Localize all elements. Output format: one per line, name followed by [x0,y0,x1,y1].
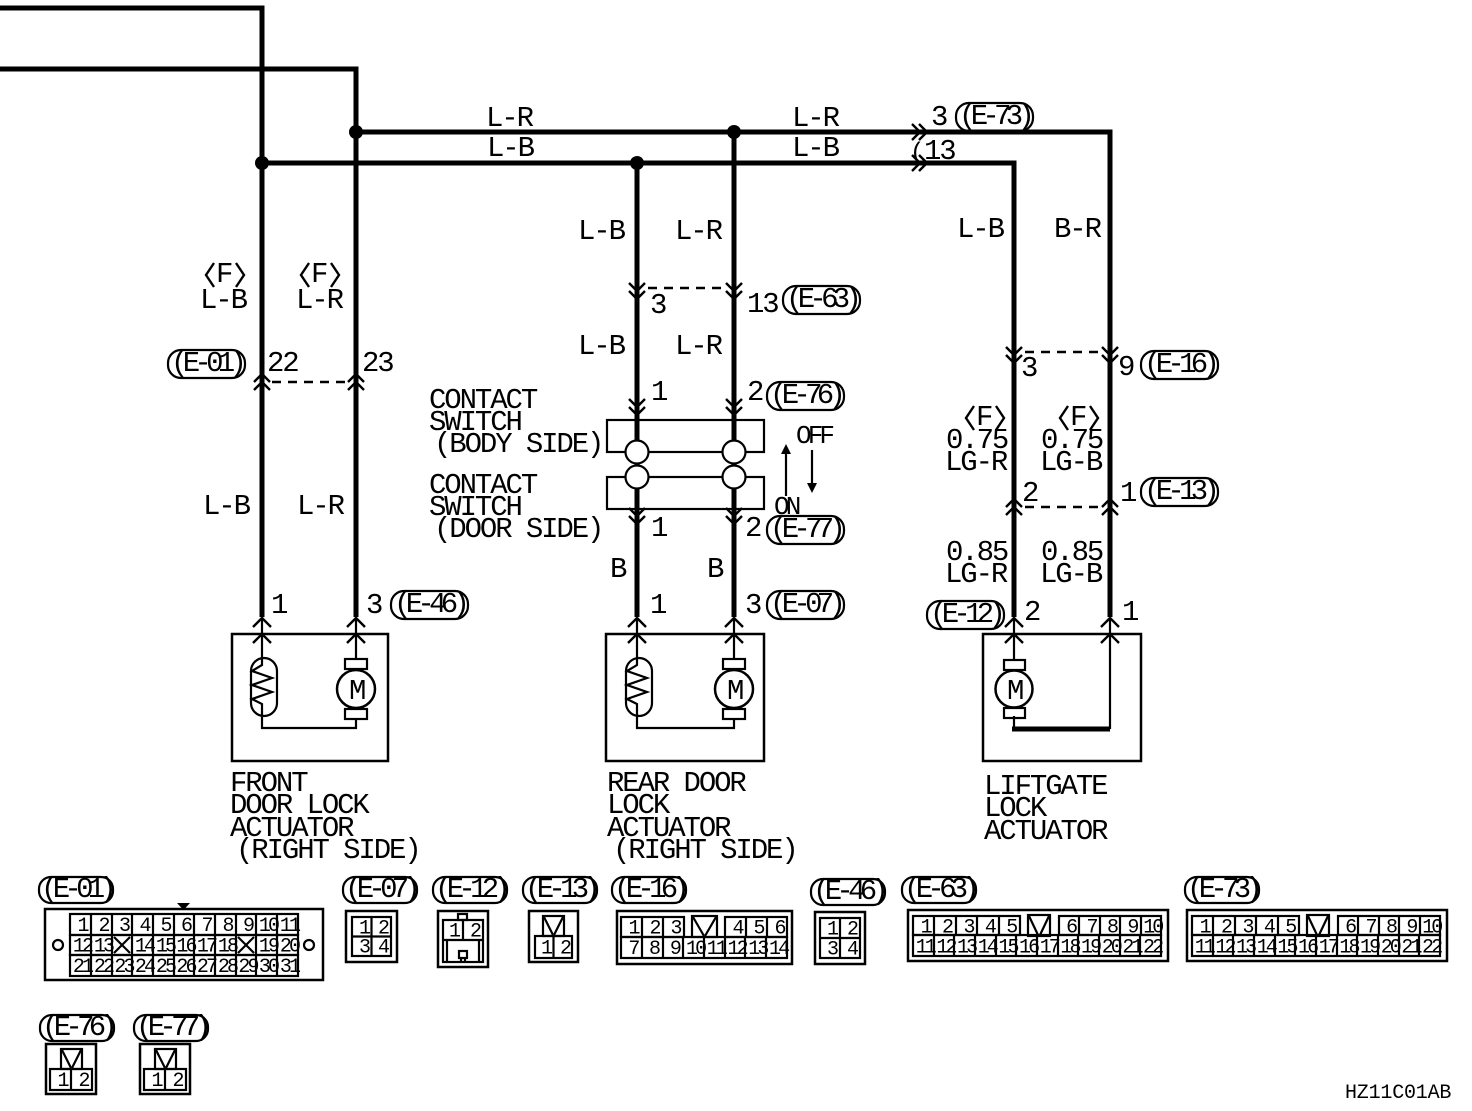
svg-text:L-R: L-R [675,330,723,363]
chevron E-16 left (down) [1006,347,1022,355]
motor M1 front actuator [337,659,375,719]
chevron E-01 pin 23 (up) [348,374,364,382]
svg-text:14: 14 [769,938,789,961]
svg-text:17: 17 [1040,937,1060,960]
chevron L-R bus to E-73 [912,124,920,140]
contact switch pole (door side, right) [723,466,746,489]
svg-text:2: 2 [747,376,763,409]
svg-text:13: 13 [957,937,977,960]
svg-text:L-R: L-R [296,284,344,317]
wire L-R bus (to liftgate B-R drop at x=1110) [356,132,1110,617]
svg-text:L-B: L-B [957,213,1005,246]
box-entry arrow liftgate pin 1 [1101,634,1119,643]
svg-text:(DOOR SIDE): (DOOR SIDE) [434,513,602,546]
svg-text:2: 2 [1022,477,1038,510]
connector oval E-73 (inline) [956,103,1033,131]
label FRONT DOOR LOCK ACTUATOR (RIGHT SIDE) [230,767,420,867]
connector E-13 crossing dashed line [1025,506,1100,508]
svg-text:14: 14 [978,937,998,960]
connector oval E-76 (inline) [767,382,844,410]
svg-text:L-B: L-B [203,490,251,523]
box-entry arrow rear pin 1 [628,634,646,643]
contact switch door-side rectangle [607,477,764,509]
svg-text:17: 17 [1319,937,1339,960]
wire liftgate motor to bottom [1013,716,1015,729]
terminal chevron liftgate pin 2 [1005,618,1023,627]
terminal chevron rear pin 3 [725,618,743,627]
svg-text:29: 29 [238,956,258,979]
chevron E-16 right (down) [1102,347,1118,355]
chevron E-77 left (down) [629,508,645,516]
svg-text:1: 1 [1120,477,1136,510]
svg-text:(E-16): (E-16) [614,873,686,906]
svg-text:26: 26 [176,956,196,979]
svg-text:(E-01): (E-01) [171,347,243,380]
junction node L-B/front [255,156,269,170]
svg-text:21: 21 [1401,937,1422,960]
svg-text:22: 22 [94,956,114,979]
svg-text:(E-73): (E-73) [1187,873,1259,906]
svg-text:L-B: L-B [200,284,248,317]
svg-text:(E-12): (E-12) [930,598,1002,631]
wire feed L-R (second line, turns down at x=356 to front door pin 3) [0,69,356,617]
label CONTACT SWITCH (DOOR SIDE) [429,469,602,546]
svg-text:M: M [727,675,743,708]
svg-text:3: 3 [1021,352,1037,385]
motor M2 rear actuator [715,659,753,719]
connector oval E-07 (inline) [767,591,844,619]
svg-text:(BODY SIDE): (BODY SIDE) [434,428,602,461]
chevron E-76 right (down) [726,399,742,407]
svg-text:(E-73): (E-73) [959,100,1031,133]
svg-text:1: 1 [651,512,667,545]
chevron E-13 left (up) [1006,499,1022,507]
svg-text:B: B [707,553,724,586]
connector oval E-16 (inline) [1141,351,1218,379]
wire into liftgate motor [1013,619,1015,661]
contact switch pole (body side, right) [723,441,746,464]
svg-text:22: 22 [1143,937,1163,960]
terminal chevron front pin 1 [253,618,271,627]
wire into rear solenoid [636,619,638,660]
connector oval E-12 (inline) [927,601,1004,629]
svg-text:18: 18 [1060,937,1080,960]
svg-text:L-R: L-R [486,102,534,135]
connector oval E-13 (inline) [1141,478,1218,506]
connector oval E-46 (inline) [391,591,468,619]
connector E-12 pinout [433,873,507,967]
contact switch body-side rectangle [607,420,764,452]
label REAR DOOR LOCK ACTUATOR (RIGHT SIDE) [607,767,797,867]
chevron E-01 pin 22 (up) [254,374,270,382]
svg-text:OFF: OFF [796,421,833,451]
svg-text:22: 22 [267,347,298,380]
svg-text:27: 27 [197,956,217,979]
svg-text:21: 21 [73,956,94,979]
svg-text:(E-01): (E-01) [41,873,113,906]
svg-text:(E-76): (E-76) [42,1011,114,1044]
svg-text:LG-B: LG-B [1040,558,1103,591]
svg-text:1: 1 [651,376,667,409]
svg-text:(E-13): (E-13) [525,873,597,906]
svg-text:30: 30 [259,956,279,979]
solenoid rear actuator [626,658,652,716]
svg-text:(E-07): (E-07) [770,588,842,621]
wire into rear motor [733,619,735,660]
svg-text:LG-R: LG-R [945,446,1008,479]
svg-text:ON: ON [774,492,800,522]
wire rear solenoid to motor (bottom) [637,714,734,728]
svg-text:16: 16 [1298,937,1318,960]
svg-text:20: 20 [1102,937,1122,960]
OFF arrow (down) [807,450,817,493]
svg-text:(E-46): (E-46) [813,875,885,908]
label (F) on liftgate right wire [1060,401,1098,434]
svg-text:2: 2 [1024,596,1040,629]
wire front solenoid to motor (bottom) [262,714,356,728]
svg-text:22: 22 [1422,937,1442,960]
wire liftgate right inside box [1109,619,1111,729]
svg-text:(E-46): (E-46) [394,588,466,621]
chevron E-63 right (down) [726,283,742,291]
svg-text:L-B: L-B [487,132,535,165]
svg-text:12: 12 [1215,937,1235,960]
svg-text:(E-07): (E-07) [345,873,417,906]
svg-text:21: 21 [1122,937,1143,960]
svg-text:9: 9 [1118,351,1134,384]
svg-text:L-B: L-B [578,330,626,363]
terminal chevron rear pin 1 [628,618,646,627]
svg-text:(: ( [910,140,924,167]
svg-text:1: 1 [271,589,287,622]
wire L-B bus (to liftgate L-B drop at x=1014) [262,163,1014,617]
box-entry arrow rear pin 3 [725,634,743,643]
svg-text:13: 13 [924,135,955,168]
svg-text:11: 11 [1195,937,1216,960]
svg-text:(E-12): (E-12) [435,873,507,906]
svg-text:12: 12 [727,938,747,961]
connector E-01 pinout [39,873,323,980]
chevron E-76 left (down) [629,399,645,407]
svg-text:(E-77): (E-77) [136,1011,208,1044]
svg-text:19: 19 [1360,937,1380,960]
svg-text:L-B: L-B [792,132,840,165]
chevron E-13 right (up) [1102,499,1118,507]
svg-text:LG-R: LG-R [945,558,1008,591]
svg-text:ACTUATOR: ACTUATOR [984,815,1108,848]
svg-text:HZ11C01AB: HZ11C01AB [1345,1082,1451,1105]
svg-text:11: 11 [916,937,937,960]
chevron E-63 left (down) [629,283,645,291]
connector E-73 pinout [1185,873,1447,961]
svg-text:3: 3 [366,589,382,622]
svg-text:3: 3 [745,589,761,622]
svg-text:31: 31 [280,956,301,979]
motor M3 liftgate actuator [996,660,1033,718]
wire liftgate bottom (thick) [1012,727,1110,732]
connector E-76 pinout [40,1011,114,1094]
connector oval E-63 (inline) [783,286,860,314]
svg-text:19: 19 [1081,937,1101,960]
box-entry arrow liftgate pin 2 [1005,634,1023,643]
connector E-01 crossing dashed line [272,381,348,383]
connector oval E-01 [168,350,245,378]
svg-text:3: 3 [931,101,947,134]
chevron L-B bus to E-73 pin 13 [912,155,920,171]
svg-text:(E-16): (E-16) [1144,348,1216,381]
label LIFTGATE LOCK ACTUATOR [984,770,1108,848]
wire feed L-B (top line, turns down at x=262 to front door pin 1) [0,8,262,617]
svg-text:B: B [610,553,627,586]
svg-text:13: 13 [748,938,768,961]
junction node L-R/front [349,125,363,139]
wire rear door L-B drop [635,163,640,617]
svg-text:LG-B: LG-B [1040,446,1103,479]
liftgate lock actuator box [983,634,1141,761]
svg-text:(E-63): (E-63) [786,283,858,316]
svg-text:13: 13 [747,288,778,321]
junction node L-B/rear [630,156,644,170]
label (F) on front L-B wire [206,258,244,291]
svg-text:23: 23 [362,347,393,380]
svg-text:2: 2 [745,512,761,545]
svg-text:(E-76): (E-76) [770,379,842,412]
svg-text:(RIGHT SIDE): (RIGHT SIDE) [613,834,797,867]
svg-text:(E-63): (E-63) [904,873,976,906]
ON arrow (up) [781,444,791,496]
svg-text:L-R: L-R [297,490,345,523]
svg-text:(RIGHT SIDE): (RIGHT SIDE) [236,834,420,867]
connector E-16 pinout [612,873,792,964]
svg-text:M: M [349,675,365,708]
svg-text:(E-13): (E-13) [1144,475,1216,508]
label (F) on front L-R wire [301,258,339,291]
svg-text:M: M [1007,675,1023,708]
connector E-46 pinout [811,875,885,964]
junction node L-R/rear [727,125,741,139]
svg-text:14: 14 [1257,937,1277,960]
chevron E-77 right (down) [726,508,742,516]
svg-text:18: 18 [1339,937,1359,960]
box-entry arrow front pin 1 [253,634,271,643]
svg-text:12: 12 [936,937,956,960]
svg-text:L-R: L-R [675,215,723,248]
wire into front motor [355,619,357,660]
connector E-13 pinout [523,873,597,962]
terminal chevron front pin 3 [347,618,365,627]
svg-text:23: 23 [114,956,134,979]
terminal chevron liftgate pin 1 [1101,618,1119,627]
box-entry arrow front pin 3 [347,634,365,643]
svg-text:L-B: L-B [578,215,626,248]
contact switch pole (door side, left) [626,466,649,489]
svg-text:28: 28 [218,956,238,979]
connector E-63 pinout [902,873,1168,961]
front door lock actuator box [232,634,388,761]
svg-text:15: 15 [998,937,1018,960]
connector E-16 crossing dashed line [1025,351,1100,353]
svg-text:1: 1 [650,589,666,622]
wire rear door L-R drop [732,132,737,617]
svg-text:24: 24 [135,956,155,979]
svg-text:L-R: L-R [792,102,840,135]
wire into front solenoid [261,619,263,660]
svg-text:B-R: B-R [1054,213,1102,246]
svg-text:13: 13 [1236,937,1256,960]
svg-text:11: 11 [707,938,728,961]
contact switch pole (body side, left) [626,441,649,464]
connector E-07 pinout [343,873,417,962]
connector oval E-77 (inline) [767,516,844,544]
svg-text:16: 16 [1019,937,1039,960]
solenoid front actuator [251,658,277,716]
svg-text:15: 15 [1277,937,1297,960]
connector E-63 crossing dashed line [648,287,723,289]
label CONTACT SWITCH (BODY SIDE) [429,384,602,461]
svg-text:3: 3 [650,289,666,322]
svg-text:25: 25 [156,956,176,979]
connector E-77 pinout [134,1011,208,1094]
svg-text:20: 20 [1381,937,1401,960]
label (F) on liftgate left wire [966,401,1004,434]
svg-text:1: 1 [1122,596,1138,629]
rear door lock actuator box [606,634,764,761]
svg-text:10: 10 [686,938,706,961]
